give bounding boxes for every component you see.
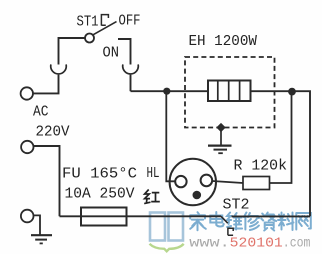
svg-text:ON: ON (103, 44, 120, 61)
svg-text:www.: www. (189, 236, 229, 252)
svg-text:ST2: ST2 (223, 197, 250, 214)
svg-text:.com: .com (283, 236, 311, 252)
svg-text:FU 165°C: FU 165°C (62, 166, 137, 183)
svg-text:220V: 220V (36, 124, 70, 141)
svg-text:HL: HL (147, 165, 160, 182)
svg-text:10A 250V: 10A 250V (65, 186, 135, 203)
svg-text:OFF: OFF (119, 13, 141, 30)
svg-text:AC: AC (33, 104, 49, 121)
svg-text:520101: 520101 (230, 236, 283, 252)
svg-text:R 120k: R 120k (234, 158, 288, 175)
svg-text:ST1: ST1 (77, 14, 99, 31)
svg-text:EH 1200W: EH 1200W (189, 33, 258, 50)
